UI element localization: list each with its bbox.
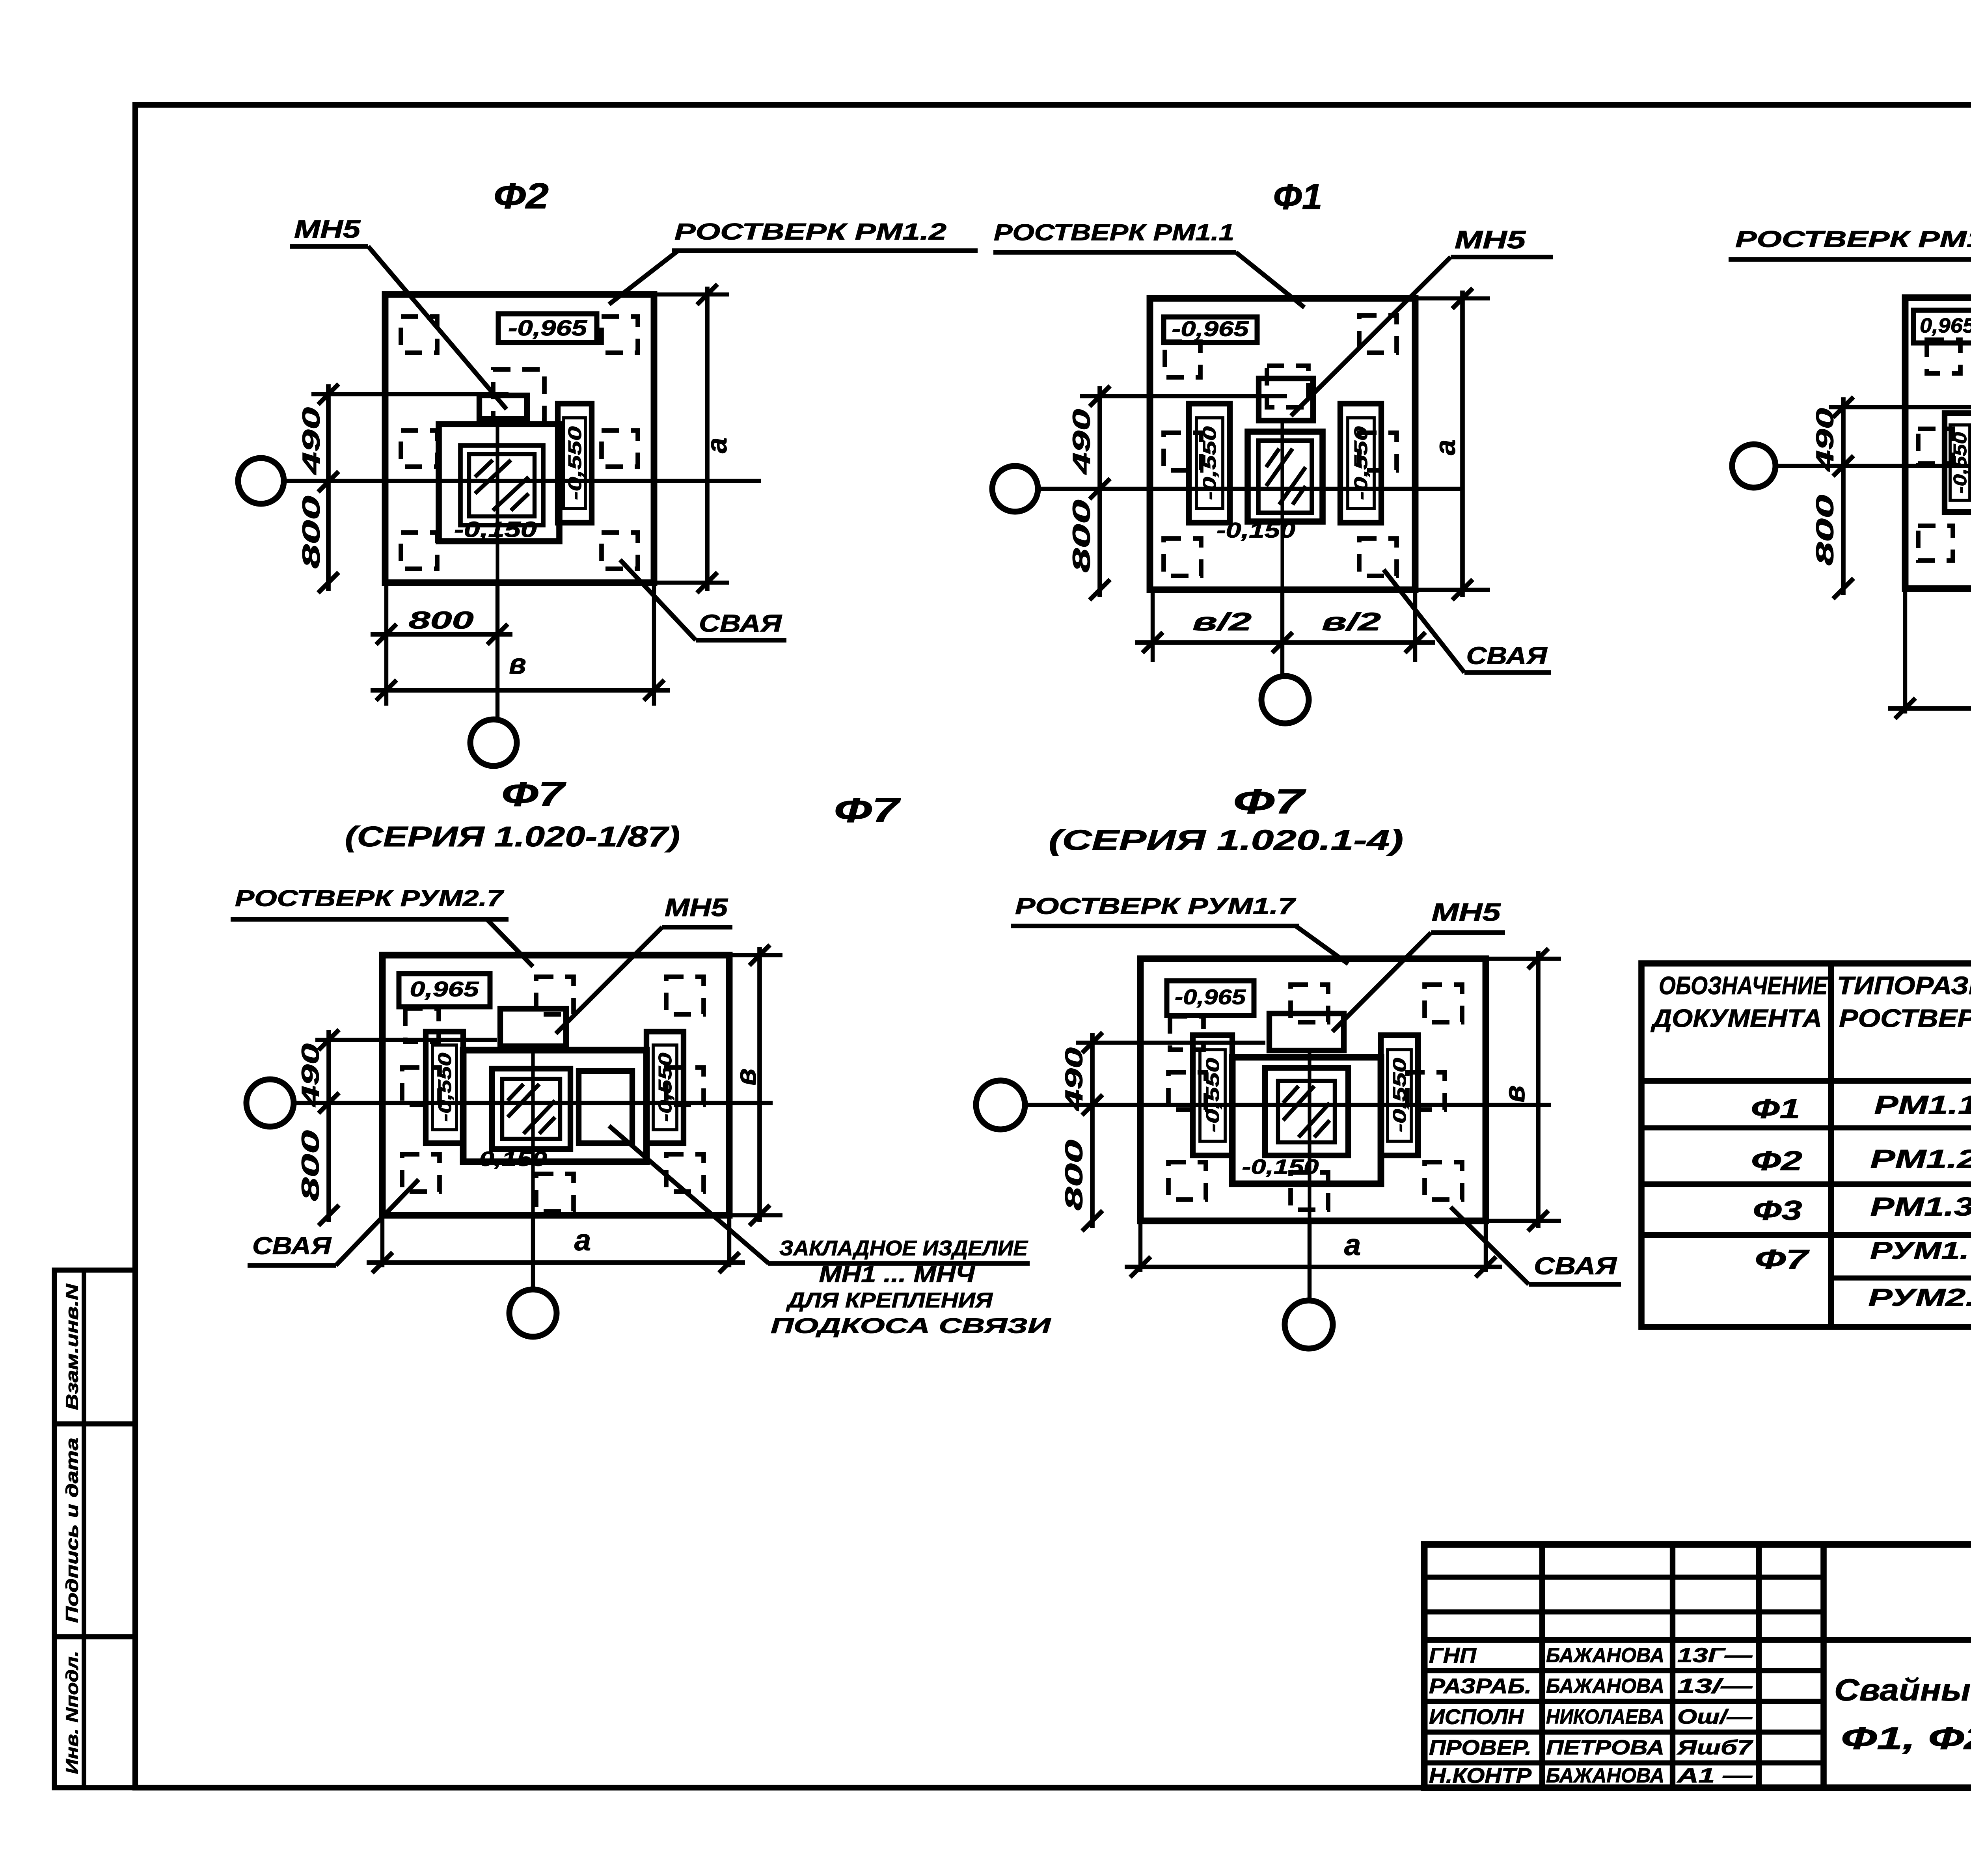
svg-text:РУМ1.7: РУМ1.7 bbox=[1870, 1237, 1971, 1264]
svg-text:РОСТВЕРК РМ1.2: РОСТВЕРК РМ1.2 bbox=[674, 219, 946, 244]
svg-text:800: 800 bbox=[1068, 500, 1095, 573]
svg-text:-0,550: -0,550 bbox=[1389, 1058, 1410, 1133]
svg-text:РОСТВЕРК РУМ1.7: РОСТВЕРК РУМ1.7 bbox=[1015, 893, 1297, 919]
svg-text:Ф1: Ф1 bbox=[1273, 177, 1323, 217]
svg-text:ТИПОРАЗМЕР: ТИПОРАЗМЕР bbox=[1837, 971, 1971, 1000]
svg-text:(СЕРИЯ 1.020.1-4): (СЕРИЯ 1.020.1-4) bbox=[1049, 825, 1403, 856]
svg-text:(СЕРИЯ 1.020-1/87): (СЕРИЯ 1.020-1/87) bbox=[345, 821, 680, 853]
svg-text:490: 490 bbox=[298, 407, 325, 475]
svg-text:490: 490 bbox=[1060, 1047, 1088, 1112]
svg-text:БАЖАНОВА: БАЖАНОВА bbox=[1546, 1675, 1664, 1698]
svg-text:в: в bbox=[509, 648, 526, 680]
svg-text:ГНП: ГНП bbox=[1429, 1643, 1477, 1667]
svg-text:МН5: МН5 bbox=[665, 893, 728, 922]
svg-text:Ф7: Ф7 bbox=[501, 774, 567, 813]
svg-text:РОСТВЕРК РМ1.3: РОСТВЕРК РМ1.3 bbox=[1735, 226, 1971, 252]
svg-text:ПОДКОСА СВЯЗИ: ПОДКОСА СВЯЗИ bbox=[771, 1314, 1051, 1338]
svg-text:СВАЯ: СВАЯ bbox=[699, 610, 782, 637]
svg-text:СВАЯ: СВАЯ bbox=[1466, 642, 1548, 669]
svg-text:в: в bbox=[730, 1068, 762, 1086]
svg-text:ПЕТРОВА: ПЕТРОВА bbox=[1546, 1736, 1664, 1759]
svg-text:НИКОЛАЕВА: НИКОЛАЕВА bbox=[1546, 1706, 1664, 1729]
svg-text:а: а bbox=[574, 1224, 591, 1257]
svg-text:-0,550: -0,550 bbox=[1950, 432, 1970, 494]
svg-text:РОСТВЕРК РМ1.1: РОСТВЕРК РМ1.1 bbox=[994, 220, 1234, 245]
svg-text:ОБОЗНАЧЕНИЕ: ОБОЗНАЧЕНИЕ bbox=[1659, 971, 1828, 1000]
svg-text:МН5: МН5 bbox=[1432, 898, 1502, 926]
svg-text:а: а bbox=[1430, 440, 1461, 455]
svg-text:а: а bbox=[701, 438, 733, 453]
svg-text:МН5: МН5 bbox=[294, 215, 361, 243]
svg-text:800: 800 bbox=[1811, 495, 1839, 566]
svg-text:-0,550: -0,550 bbox=[1202, 1058, 1223, 1133]
svg-text:Н.КОНТР: Н.КОНТР bbox=[1429, 1764, 1532, 1787]
svg-text:Ош/—: Ош/— bbox=[1677, 1706, 1753, 1729]
svg-text:БАЖАНОВА: БАЖАНОВА bbox=[1546, 1764, 1664, 1787]
svg-text:Ф7: Ф7 bbox=[1755, 1244, 1810, 1274]
svg-text:в: в bbox=[1499, 1085, 1531, 1103]
svg-text:-0,965: -0,965 bbox=[508, 315, 587, 340]
svg-text:-0,550: -0,550 bbox=[655, 1053, 675, 1122]
svg-text:РУМ2.7: РУМ2.7 bbox=[1869, 1284, 1971, 1311]
svg-text:МН5: МН5 bbox=[1455, 225, 1526, 254]
svg-text:Ф2: Ф2 bbox=[1751, 1145, 1802, 1176]
svg-text:РМ1.1: РМ1.1 bbox=[1874, 1090, 1971, 1119]
svg-text:Подпись и дата: Подпись и дата bbox=[63, 1438, 82, 1623]
svg-text:490: 490 bbox=[1068, 409, 1095, 475]
svg-text:А1 —: А1 — bbox=[1676, 1764, 1753, 1787]
svg-text:-0,550: -0,550 bbox=[564, 426, 585, 500]
svg-text:-0,150: -0,150 bbox=[470, 1148, 547, 1171]
svg-text:13/—: 13/— bbox=[1677, 1675, 1753, 1698]
svg-text:Ф7: Ф7 bbox=[1233, 782, 1306, 821]
svg-text:Инв. Nподл.: Инв. Nподл. bbox=[63, 1651, 82, 1774]
svg-text:РАЗРАБ.: РАЗРАБ. bbox=[1429, 1674, 1531, 1698]
svg-text:0,965: 0,965 bbox=[1920, 315, 1971, 337]
svg-text:800: 800 bbox=[409, 607, 474, 634]
svg-text:СВАЯ: СВАЯ bbox=[1534, 1252, 1617, 1280]
svg-text:БАЖАНОВА: БАЖАНОВА bbox=[1546, 1644, 1664, 1667]
svg-text:490: 490 bbox=[1811, 408, 1839, 472]
svg-text:ИСПОЛН: ИСПОЛН bbox=[1429, 1705, 1524, 1729]
svg-text:ЗАКЛАДНОЕ ИЗДЕЛИЕ: ЗАКЛАДНОЕ ИЗДЕЛИЕ bbox=[779, 1236, 1028, 1260]
svg-text:-0,965: -0,965 bbox=[1175, 985, 1246, 1009]
svg-text:Взам.инв.N: Взам.инв.N bbox=[63, 1283, 82, 1410]
svg-text:Ф7: Ф7 bbox=[834, 790, 902, 829]
svg-text:Яшб7: Яшб7 bbox=[1676, 1736, 1753, 1759]
svg-text:-0,150: -0,150 bbox=[1242, 1156, 1319, 1179]
svg-text:-0,150: -0,150 bbox=[454, 517, 537, 542]
svg-text:800: 800 bbox=[297, 1130, 324, 1201]
svg-text:Ф2: Ф2 bbox=[494, 176, 549, 216]
svg-text:РМ1.2: РМ1.2 bbox=[1870, 1144, 1971, 1173]
svg-text:РОСТВЕРКА: РОСТВЕРКА bbox=[1839, 1004, 1971, 1032]
svg-text:13Г—: 13Г— bbox=[1677, 1644, 1753, 1667]
svg-text:Ф3: Ф3 bbox=[1753, 1195, 1802, 1226]
svg-text:490: 490 bbox=[297, 1043, 324, 1108]
svg-text:в/2: в/2 bbox=[1192, 607, 1252, 636]
svg-text:ДОКУМЕНТА: ДОКУМЕНТА bbox=[1651, 1004, 1822, 1032]
svg-text:РОСТВЕРК РУМ2.7: РОСТВЕРК РУМ2.7 bbox=[235, 885, 504, 911]
svg-text:Ф1: Ф1 bbox=[1751, 1093, 1800, 1124]
svg-text:Свайный фундамент: Свайный фундамент bbox=[1834, 1673, 1971, 1707]
svg-text:МН1 ... МНЧ: МН1 ... МНЧ bbox=[819, 1261, 976, 1287]
svg-text:0,965: 0,965 bbox=[410, 977, 479, 1001]
svg-text:Ф1, Ф2, Ф3, Ф7: Ф1, Ф2, Ф3, Ф7 bbox=[1841, 1721, 1971, 1756]
svg-text:РМ1.3: РМ1.3 bbox=[1870, 1192, 1971, 1221]
svg-text:СВАЯ: СВАЯ bbox=[252, 1232, 332, 1259]
svg-text:в/2: в/2 bbox=[1322, 607, 1381, 636]
svg-text:-0,550: -0,550 bbox=[434, 1053, 455, 1122]
svg-text:а: а bbox=[1344, 1228, 1361, 1262]
svg-text:ДЛЯ КРЕПЛЕНИЯ: ДЛЯ КРЕПЛЕНИЯ bbox=[786, 1288, 993, 1312]
svg-text:-0,965: -0,965 bbox=[1172, 317, 1249, 341]
svg-text:800: 800 bbox=[298, 496, 325, 569]
svg-text:ПРОВЕР.: ПРОВЕР. bbox=[1429, 1736, 1531, 1759]
svg-text:800: 800 bbox=[1060, 1140, 1088, 1211]
